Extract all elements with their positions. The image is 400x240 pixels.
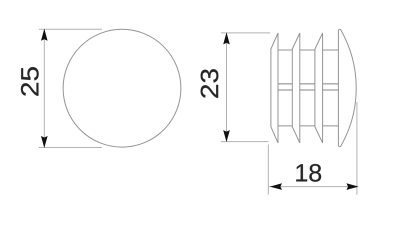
- dim 25 bottom arrowhead: [41, 136, 48, 148]
- dim 25 top arrowhead: [41, 29, 48, 41]
- dim 18 text "18": [296, 164, 321, 182]
- dim 25 top extension line: [39, 28, 102, 30]
- dim 25 text "25" (rotated): [21, 67, 39, 96]
- dim 25 bottom extension line: [39, 147, 102, 149]
- central rib band top line: [278, 83, 338, 85]
- cap with domed face: [338, 29, 356, 146]
- side view fin 1 (lamella): [271, 33, 278, 143]
- dim 18 left arrowhead: [270, 183, 282, 190]
- dim 25 dimension line: [43, 29, 45, 147]
- dim 23 bottom arrowhead: [223, 130, 230, 142]
- dim 23 bottom extension line: [221, 141, 269, 143]
- dim 23 top extension line: [221, 32, 270, 34]
- dim 23 dimension line: [226, 33, 228, 142]
- dim 18 left extension line: [267, 145, 269, 195]
- dim 23 top arrowhead: [223, 32, 230, 44]
- shank top surface line segments: [278, 49, 338, 51]
- dim 23 text "23" (rotated): [201, 69, 219, 98]
- dim 18 dimension line: [268, 186, 357, 188]
- front view circle (flange O25): [63, 29, 181, 147]
- dim 18 right extension line: [356, 102, 358, 195]
- central rib band bottom line: [278, 89, 338, 91]
- shank bottom surface line segments: [278, 125, 338, 127]
- side view fin 2 (lamella): [292, 33, 300, 143]
- dim 18 right arrowhead: [346, 183, 358, 190]
- side view fin 3 (lamella): [315, 33, 323, 143]
